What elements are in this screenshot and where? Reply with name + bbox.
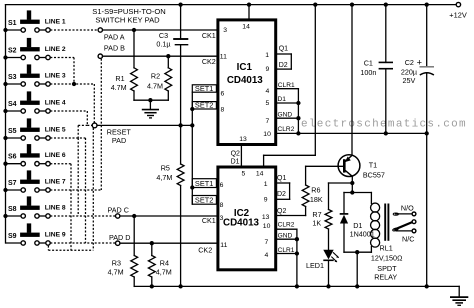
ground symbol left — [149, 100, 151, 109]
terminal +12V — [456, 2, 460, 6]
junction box bottom — [355, 250, 359, 254]
svg-text:PAD D: PAD D — [109, 233, 130, 242]
wire LED1 to rail — [328, 260, 330, 286]
pad B — [98, 54, 102, 58]
resistor R7 1K — [328, 183, 330, 210]
svg-text:PAD A: PAD A — [104, 32, 125, 41]
wire Q1 IC2 — [277, 182, 290, 184]
junction R4-rail — [150, 284, 154, 288]
svg-text:S3: S3 — [8, 74, 17, 81]
wire GND IC2 — [277, 238, 297, 240]
junction CLR2 IC1 — [296, 131, 300, 135]
junction rail-T1 emitter — [350, 2, 354, 6]
svg-text:4.7M: 4.7M — [147, 82, 163, 91]
wire D2 IC1 — [277, 68, 291, 70]
wire reset riser (dashed) — [77, 138, 79, 216]
switch S9 (push-to-on) — [27, 223, 31, 232]
wire S4 drop (dashed) — [86, 111, 88, 125]
wire +12V top rail — [6, 4, 457, 6]
resistor R3 4,7M — [133, 216, 135, 256]
svg-text:SET2: SET2 — [195, 196, 213, 205]
wire SET drop — [191, 92, 193, 204]
terminal N/O — [412, 212, 416, 216]
switch S1 (push-to-on) — [27, 10, 31, 19]
wire IC2 pin14 riser — [263, 155, 265, 165]
svg-text:S7: S7 — [8, 180, 17, 187]
junction R3 top — [132, 214, 136, 218]
svg-text:1: 1 — [264, 181, 268, 188]
wire S7 (dashed) — [50, 189, 101, 191]
svg-text:4,7M: 4,7M — [156, 173, 172, 182]
ground symbol right — [450, 296, 468, 298]
wire PAD B drop to S7 (dashed) — [100, 59, 102, 190]
svg-text:S1: S1 — [8, 20, 17, 27]
svg-text:N/O: N/O — [401, 204, 414, 213]
junction C1-ground line — [384, 131, 388, 135]
svg-text:R4: R4 — [160, 258, 169, 267]
wire C3 to SET node — [180, 45, 182, 126]
junction R5-ground rail — [178, 284, 182, 288]
junction R1 top — [132, 28, 136, 32]
wire relay box bottom — [344, 251, 371, 253]
wire S9 stub down (dashed) — [47, 246, 49, 251]
switch S5 (push-to-on) — [27, 118, 31, 127]
svg-text:7: 7 — [266, 118, 270, 125]
wire S2 (dashed) — [50, 57, 74, 59]
svg-text:3: 3 — [223, 27, 227, 34]
switch S7 (push-to-on) — [27, 170, 31, 179]
wire R1-R2 join — [134, 99, 168, 101]
svg-text:RL1: RL1 — [380, 243, 393, 252]
junction S2-S3 — [72, 82, 76, 86]
relay RL1 coil — [370, 193, 372, 204]
svg-text:Q2: Q2 — [231, 151, 240, 158]
junction bus-S8 — [3, 214, 7, 218]
svg-text:4: 4 — [266, 88, 270, 95]
svg-text:GND: GND — [278, 111, 293, 118]
svg-text:4,7M: 4,7M — [108, 267, 124, 276]
SET1 box IC1 — [192, 85, 216, 92]
svg-text:SET1: SET1 — [195, 84, 213, 93]
resistor R6 18K — [305, 166, 307, 185]
svg-text:R3: R3 — [112, 258, 121, 267]
junction rail-C3 — [178, 2, 182, 6]
svg-text:D2: D2 — [279, 62, 288, 69]
junction bus-S3 — [3, 82, 7, 86]
switch S2 (push-to-on) — [27, 38, 31, 47]
svg-text:S4: S4 — [8, 101, 17, 108]
junction R2 top — [166, 54, 170, 58]
svg-text:CLR1: CLR1 — [278, 247, 295, 254]
junction bus-S2 — [3, 55, 7, 59]
junction bus-S6 — [3, 162, 7, 166]
wire S3 (dashed) — [50, 83, 94, 85]
wire T1 collector — [351, 176, 353, 192]
junction CLR1 IC2 — [295, 251, 299, 255]
svg-text:SET1: SET1 — [195, 179, 213, 188]
wire ground drop — [458, 286, 460, 296]
svg-text:LED1: LED1 — [306, 261, 324, 270]
svg-text:11: 11 — [220, 54, 227, 61]
SET2 box IC1 — [192, 102, 216, 109]
resistor R4 4,7M — [151, 243, 153, 255]
switch S3 (push-to-on) — [27, 64, 31, 73]
wire D1 IC1 — [277, 102, 298, 104]
wire T1 emitter to rail — [351, 5, 353, 156]
capacitor C3 0.1u — [173, 38, 188, 40]
svg-text:5: 5 — [242, 171, 246, 178]
wire Q2 IC2 to R6 — [277, 215, 306, 217]
terminal N/C — [412, 229, 416, 233]
wire RESET branch (dashed) — [78, 124, 87, 126]
svg-text:R2: R2 — [151, 71, 160, 80]
svg-text:Q1: Q1 — [277, 175, 286, 182]
wire IC1 pin14 to rail — [248, 5, 250, 19]
svg-text:PAD C: PAD C — [108, 205, 129, 214]
junction bus-S1 — [3, 28, 7, 32]
resistor R2 4.7M — [167, 56, 169, 68]
junction bus-S7 — [3, 188, 7, 192]
transistor T1 BC557 — [338, 155, 360, 177]
junction GND IC1 — [296, 116, 300, 120]
wire PAD C to IC2 CK1 — [120, 215, 216, 217]
svg-text:CLR1: CLR1 — [278, 82, 295, 89]
wire RESET pad to SET line — [97, 124, 192, 126]
svg-text:14: 14 — [242, 24, 250, 31]
wire left keypad bus — [5, 5, 7, 243]
junction C2-ground line — [425, 131, 429, 135]
wire S3 drop to RESET pad (dashed) — [93, 84, 95, 123]
wire D2 IC2 — [277, 198, 290, 200]
svg-text:6: 6 — [221, 90, 225, 97]
junction SET2 IC1 — [190, 107, 194, 111]
svg-text:LINE 4: LINE 4 — [45, 99, 66, 106]
IC U1 CD4013 body — [218, 20, 276, 145]
relay contact N/C — [396, 230, 412, 232]
wire S8 to PAD C (dashed) — [50, 215, 115, 217]
svg-text:13: 13 — [239, 136, 247, 143]
relay core — [384, 204, 386, 241]
wire R7 branch — [329, 182, 353, 184]
wire S5 (dashed) — [50, 137, 85, 139]
svg-text:4,7M: 4,7M — [156, 267, 172, 276]
junction C3-R5 node — [178, 123, 182, 127]
svg-text:electroschematics.com: electroschematics.com — [301, 118, 467, 130]
svg-text:+12V: +12V — [449, 11, 467, 20]
svg-text:S2: S2 — [8, 47, 17, 54]
svg-text:8: 8 — [221, 107, 225, 114]
wire Q1-D2 loop IC1 — [290, 54, 292, 69]
svg-text:R1: R1 — [115, 74, 124, 83]
svg-text:LINE 3: LINE 3 — [45, 72, 66, 79]
wire CLR2 IC1 and ground line — [277, 132, 427, 134]
svg-text:CK2: CK2 — [202, 57, 216, 66]
wire D1 branch lower — [343, 224, 345, 253]
svg-text:RELAY: RELAY — [374, 273, 397, 282]
svg-text:100n: 100n — [360, 68, 376, 77]
svg-text:SWITCH KEY PAD: SWITCH KEY PAD — [95, 16, 160, 25]
svg-text:8: 8 — [220, 202, 224, 209]
wire bottom dashed link — [48, 249, 93, 251]
svg-text:SET2: SET2 — [195, 101, 213, 110]
svg-text:C2: C2 — [405, 58, 414, 67]
svg-text:C1: C1 — [364, 58, 373, 67]
svg-text:LINE 5: LINE 5 — [45, 126, 66, 133]
svg-text:PAD B: PAD B — [104, 44, 125, 53]
wire D1 branch upper — [343, 193, 345, 214]
svg-text:LINE 1: LINE 1 — [45, 18, 66, 25]
wire rail to C3 — [180, 5, 182, 39]
wire PAD D to IC2 CK2 — [120, 242, 216, 244]
wire S6 (dashed) — [50, 163, 71, 165]
svg-text:4: 4 — [265, 252, 269, 259]
switch S4 (push-to-on) — [27, 91, 31, 100]
svg-text:S9: S9 — [8, 233, 17, 240]
svg-text:S5: S5 — [8, 128, 17, 135]
relay contact N/O — [396, 213, 413, 215]
pad RESET — [92, 123, 97, 128]
svg-text:Q1: Q1 — [279, 46, 288, 53]
wire S2 drop to S3 (dashed) — [73, 58, 75, 85]
svg-text:CLR2: CLR2 — [278, 126, 295, 133]
svg-text:Q2: Q2 — [277, 208, 286, 215]
svg-text:IC1: IC1 — [237, 62, 253, 73]
svg-text:+: + — [417, 58, 422, 68]
wire CLR drop IC1 — [297, 89, 299, 134]
wire S1 to PAD A (dashed) — [50, 29, 98, 31]
svg-text:BC557: BC557 — [363, 171, 385, 180]
svg-text:CLR2: CLR2 — [278, 222, 295, 229]
switch S6 (push-to-on) — [27, 144, 31, 153]
junction D1 IC1 — [296, 101, 300, 105]
svg-text:CD4013: CD4013 — [227, 75, 263, 86]
junction R4 top — [150, 241, 154, 245]
relay armature — [394, 222, 413, 230]
wire ground rail — [134, 285, 459, 287]
junction box-rail — [355, 284, 359, 288]
svg-text:1K: 1K — [312, 219, 321, 228]
svg-text:10: 10 — [263, 131, 271, 138]
svg-text:3: 3 — [220, 215, 224, 222]
svg-text:D1: D1 — [231, 159, 240, 166]
junction SET line node — [190, 123, 194, 127]
wire IC1 pin13 to IC2 pin5 — [240, 146, 242, 166]
svg-text:4.7M: 4.7M — [111, 83, 127, 92]
junction rail-IC2pin14 — [313, 2, 317, 6]
IC U2 CD4013 body — [218, 167, 276, 270]
SET1 box IC2 — [192, 179, 216, 188]
svg-text:12V,150Ω: 12V,150Ω — [371, 254, 403, 263]
junction C2-rail bottom — [425, 284, 429, 288]
junction bus-S5 — [3, 136, 7, 140]
wire S5 riser (dashed) — [77, 125, 79, 138]
svg-text:LINE 2: LINE 2 — [45, 46, 66, 53]
wire relay box top — [344, 192, 371, 194]
svg-text:PAD: PAD — [112, 136, 126, 145]
wire RESET drop (dashed) — [92, 128, 94, 250]
capacitor C1 100n — [385, 5, 387, 63]
junction ground stem — [148, 98, 152, 102]
wire S4 (dashed) — [50, 110, 87, 112]
wire PAD A to IC1 CK1 — [103, 29, 217, 31]
wire box to rail — [356, 252, 358, 286]
junction bus-S4 — [3, 109, 7, 113]
wire IC2 gnd drop — [296, 229, 298, 286]
svg-text:LINE 8: LINE 8 — [45, 204, 66, 211]
resistor R1 4.7M — [133, 30, 135, 68]
wire S9 to PAD D (dashed) — [50, 242, 115, 244]
resistor R5 4,7M — [180, 125, 182, 164]
wire Q1-D2 loop IC2 — [289, 183, 291, 199]
svg-text:1: 1 — [265, 52, 269, 59]
svg-text:CK1: CK1 — [202, 31, 216, 40]
junction GND IC2 — [295, 237, 299, 241]
junction gnd drop rail — [295, 284, 299, 288]
svg-text:GND: GND — [278, 233, 293, 240]
svg-text:LINE 9: LINE 9 — [45, 231, 66, 238]
junction rail-IC1pin14 — [247, 2, 251, 6]
svg-text:LINE 7: LINE 7 — [45, 178, 66, 185]
svg-text:CD4013: CD4013 — [223, 218, 259, 229]
junction collector-R7 branch — [350, 181, 354, 185]
wire CLR1 IC2 — [277, 253, 297, 255]
svg-text:S8: S8 — [8, 206, 17, 213]
svg-text:T1: T1 — [369, 160, 377, 169]
wire Q1 IC1 — [277, 53, 291, 55]
LED LED1 — [323, 250, 333, 260]
wire CLR2 IC2 — [277, 228, 297, 230]
junction rail-C2 — [425, 2, 429, 6]
svg-text:D2: D2 — [277, 191, 286, 198]
wire S6 drop (dashed) — [70, 164, 72, 251]
svg-text:11: 11 — [220, 242, 227, 249]
junction SET1 IC2 — [190, 185, 194, 189]
junction LED1-rail — [326, 284, 330, 288]
wire PAD B to IC1 CK2 — [103, 55, 217, 57]
svg-text:CK2: CK2 — [198, 246, 212, 255]
terminal common — [412, 220, 416, 224]
svg-text:10: 10 — [263, 223, 271, 230]
wire GND IC1 — [277, 117, 298, 119]
svg-text:N/C: N/C — [402, 234, 414, 243]
svg-text:9: 9 — [264, 197, 268, 204]
wire T1 base — [306, 165, 343, 167]
svg-text:9: 9 — [266, 66, 270, 73]
junction collector-box — [350, 190, 354, 194]
svg-text:18K: 18K — [310, 195, 323, 204]
pad A — [98, 28, 102, 32]
svg-text:7: 7 — [265, 239, 269, 246]
capacitor C2 220u electrolytic — [426, 5, 428, 67]
diode D1 1N4001 — [340, 213, 349, 215]
pad D — [116, 241, 120, 245]
svg-text:5: 5 — [266, 100, 270, 107]
svg-text:25V: 25V — [403, 76, 416, 85]
svg-text:R5: R5 — [161, 164, 170, 173]
junction rail-C1 — [384, 2, 388, 6]
svg-text:6: 6 — [220, 182, 224, 189]
wire S5 drop (dashed) — [85, 138, 87, 243]
svg-text:14: 14 — [256, 171, 264, 178]
svg-text:R6: R6 — [311, 186, 320, 195]
svg-text:S6: S6 — [8, 154, 17, 161]
svg-text:D1: D1 — [278, 96, 287, 103]
svg-text:13: 13 — [262, 214, 270, 221]
svg-text:LINE 6: LINE 6 — [45, 152, 66, 159]
switch S8 (push-to-on) — [27, 196, 31, 205]
svg-text:R7: R7 — [312, 210, 321, 219]
wire S4 to RESET pad (dashed) — [87, 124, 92, 126]
svg-text:CK1: CK1 — [202, 216, 216, 225]
svg-text:0.1µ: 0.1µ — [156, 40, 170, 49]
pad C — [116, 214, 120, 218]
wire CLR1 IC1 — [277, 88, 298, 90]
SET2 box IC2 — [192, 196, 216, 205]
